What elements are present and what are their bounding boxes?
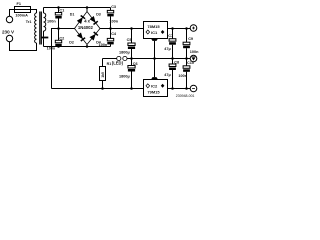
svg-text:C4: C4 (111, 32, 117, 36)
capacitor C2 (55, 29, 61, 47)
svg-text:Tr1: Tr1 (26, 20, 32, 24)
fuse F1 (15, 7, 31, 13)
junction bridge bottom (86, 45, 89, 48)
capacitor C10 (183, 59, 190, 89)
svg-text:IC1: IC1 (151, 30, 158, 35)
junction C5/C6 mid (130, 57, 133, 60)
svg-text:(LED): (LED) (112, 61, 124, 66)
svg-text:D3: D3 (96, 13, 101, 17)
svg-text:C7: C7 (168, 34, 173, 38)
junction C3/C4 (109, 27, 112, 30)
wire minus node from bridge left corner down (52, 29, 75, 89)
capacitor C8 (169, 59, 176, 89)
wire L to fuse (10, 10, 15, 17)
svg-text:C1: C1 (59, 8, 64, 12)
svg-text:C6: C6 (133, 62, 138, 66)
wire bottom rail left segment (52, 88, 144, 90)
junction C10 top (185, 57, 188, 60)
wire AC2 rail (node AC2) (44, 46, 111, 48)
svg-text:100mA: 100mA (15, 14, 28, 18)
wire center tap stub (43, 31, 45, 37)
svg-text:230948-001: 230948-001 (176, 94, 195, 98)
junction C8 bottom (171, 87, 174, 90)
svg-text:1800µ: 1800µ (119, 50, 130, 54)
terminal - output (190, 85, 197, 92)
wire plus rail from bridge right corner (100, 28, 144, 30)
ground (center tap) (41, 37, 48, 39)
junction C2 bottom (57, 45, 60, 48)
svg-text:F1: F1 (17, 2, 21, 6)
svg-text:D2: D2 (69, 40, 74, 44)
transformer Tr1 secondary winding (44, 13, 46, 31)
junction bridge top (86, 6, 89, 9)
diode D1 (77, 16, 85, 25)
wire N to primary bottom (10, 42, 37, 51)
wire fuse to primary (31, 10, 37, 14)
junction regulators ground (153, 57, 156, 60)
capacitor C6 (128, 59, 135, 89)
terminal N (mains bottom) (6, 35, 12, 41)
transformer Tr1 primary winding (35, 13, 37, 43)
junction C10 bottom (185, 87, 188, 90)
capacitor C9 (183, 29, 190, 59)
diode D3 (90, 16, 98, 25)
diode D2 (77, 33, 85, 42)
junction C5 top (130, 27, 133, 30)
svg-text:C5: C5 (127, 38, 132, 42)
svg-text:100n: 100n (47, 19, 56, 23)
capacitor C5 (128, 29, 135, 59)
svg-text:100n: 100n (190, 50, 199, 54)
svg-text:C3: C3 (111, 5, 116, 9)
terminal + output (190, 25, 197, 32)
junction C1/C2 (57, 27, 60, 30)
IC2 regulator 79M15 (144, 59, 168, 97)
svg-text:D1: D1 (70, 13, 75, 17)
IC1 regulator 78M15 (144, 22, 168, 59)
pin marker input (IC1) (146, 30, 150, 34)
svg-text:1800µ: 1800µ (119, 75, 130, 79)
wire AC1 rail (node AC1) (44, 7, 111, 9)
svg-text:79M15: 79M15 (147, 90, 160, 95)
pin marker input (IC2) (146, 84, 150, 88)
junction C8 top (171, 57, 174, 60)
pin marker output (IC1) (161, 30, 165, 34)
svg-text:C10: C10 (187, 61, 194, 65)
svg-text:100n: 100n (99, 43, 108, 47)
svg-text:R1: R1 (107, 62, 112, 66)
LED terminal right (123, 56, 127, 60)
wire secondary top to AC1 rail (43, 8, 45, 14)
svg-text:1N4002: 1N4002 (78, 25, 94, 30)
junction C6 bottom (130, 87, 133, 90)
capacitor C4 (107, 29, 113, 47)
capacitor C3 (107, 8, 113, 29)
svg-text:C2: C2 (59, 37, 64, 41)
pin marker output (IC2) (161, 84, 165, 88)
bridge rectifier diamond (75, 8, 101, 47)
resistor R1 (100, 59, 106, 89)
junction C9 top (185, 27, 188, 30)
terminal 0V output (190, 55, 197, 62)
junction C1 top (57, 6, 60, 9)
svg-text:C8: C8 (174, 61, 179, 65)
svg-text:100n: 100n (109, 20, 118, 24)
LED terminal left (117, 56, 121, 60)
capacitor C1 (55, 8, 61, 29)
junction C7 top (171, 27, 174, 30)
svg-text:C9: C9 (188, 37, 193, 41)
svg-text:47µ: 47µ (164, 73, 170, 77)
svg-text:100n: 100n (178, 74, 187, 78)
svg-text:230 V: 230 V (2, 30, 15, 35)
terminal L (mains top) (6, 16, 12, 22)
svg-text:IC2: IC2 (151, 84, 158, 89)
wire bottom rail right segment (168, 88, 191, 90)
wire LED terminal to mid rail (127, 58, 190, 60)
wire IC1 output rail (168, 28, 191, 30)
svg-text:78M15: 78M15 (147, 24, 160, 29)
svg-text:4 x: 4 x (84, 18, 90, 23)
wire secondary bottom lead (43, 38, 45, 46)
capacitor C7 (169, 29, 176, 59)
diode D4 (90, 32, 98, 41)
transformer core (40, 12, 42, 45)
wire R1 to LED terminal (103, 58, 117, 60)
svg-text:1k5: 1k5 (101, 72, 105, 78)
junction R1 bottom (101, 87, 104, 90)
svg-text:47µ: 47µ (164, 47, 170, 51)
